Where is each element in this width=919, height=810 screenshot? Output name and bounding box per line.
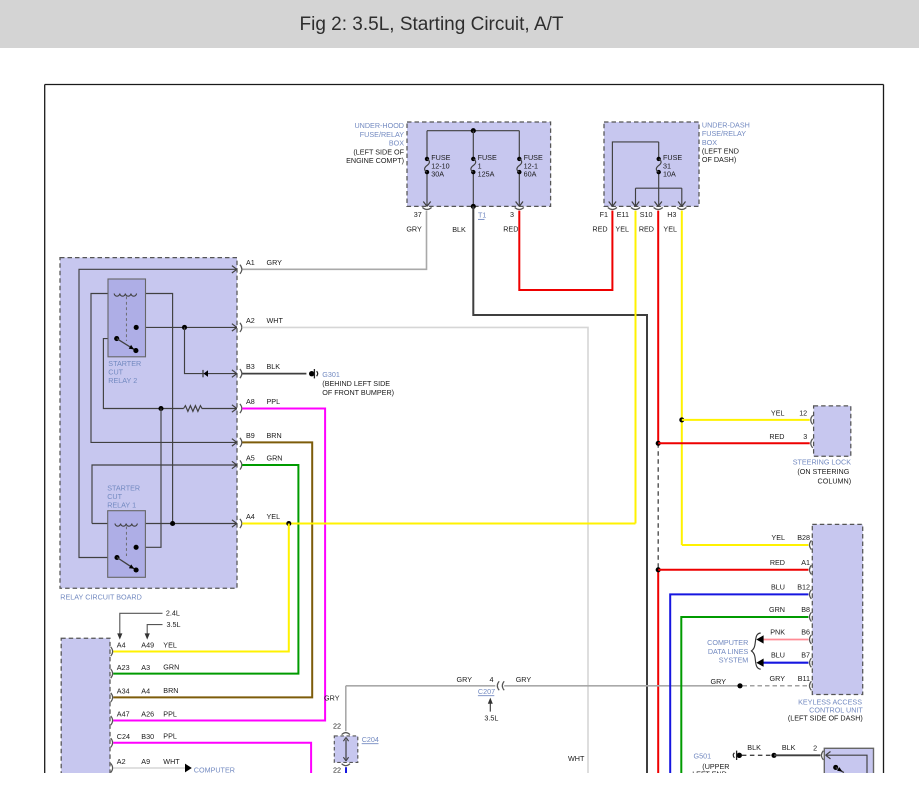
svg-text:B7: B7 (801, 651, 810, 660)
node RED A1 junction (656, 567, 661, 572)
wire GRY 37 to A1 (242, 211, 426, 270)
unit switch (833, 765, 838, 770)
svg-text:GRY: GRY (516, 675, 532, 684)
svg-text:GRY: GRY (457, 675, 473, 684)
variant 3.5L pointer (147, 625, 162, 635)
svg-text:BLK: BLK (267, 362, 281, 371)
svg-text:C204: C204 (362, 735, 379, 744)
arrow PNK B6 (756, 635, 763, 643)
pin B8 socket (809, 612, 811, 621)
svg-text:A2: A2 (117, 757, 126, 766)
svg-text:DATA LINES: DATA LINES (708, 647, 749, 656)
title bar (0, 0, 919, 48)
wire H3 internal (681, 188, 683, 206)
connector C207 break (497, 681, 499, 690)
svg-text:ENGINE COMPT): ENGINE COMPT) (346, 156, 404, 165)
steering lock box (814, 406, 851, 456)
pin 2 arrow inside (826, 752, 831, 756)
svg-text:RED: RED (592, 225, 607, 234)
wire GRY B11 dashed (743, 685, 808, 687)
svg-text:WHT: WHT (568, 754, 585, 763)
node T1 top junction (471, 128, 476, 133)
wire BLK T1 down (473, 206, 647, 773)
svg-text:RED: RED (770, 558, 785, 567)
svg-text:2: 2 (813, 743, 817, 752)
wire BLU B12 (670, 594, 808, 773)
svg-text:OF DASH): OF DASH) (702, 155, 736, 164)
bottom-right control unit box (824, 748, 873, 778)
relay box starter cut relay 1 (108, 511, 146, 578)
svg-text:YEL: YEL (267, 512, 281, 521)
svg-text:G301: G301 (322, 370, 340, 379)
computer off-page arrow (185, 764, 192, 773)
under-dash fuse/relay box (604, 122, 699, 206)
wire relay2 coil left to B9 (91, 294, 237, 443)
svg-text:A26: A26 (141, 710, 154, 719)
computer connector block (61, 638, 110, 778)
pin B9 arrow (232, 439, 237, 443)
svg-text:PPL: PPL (267, 397, 281, 406)
svg-text:RELAY 1: RELAY 1 (107, 501, 136, 510)
wire BRN B9 to A34 (113, 442, 312, 697)
svg-text:WHT: WHT (163, 757, 180, 766)
unit inner wire (826, 755, 867, 773)
svg-text:22: 22 (333, 722, 341, 731)
svg-text:3: 3 (803, 432, 807, 441)
pin C24/B30 socket (111, 738, 113, 747)
relay 2 pivot (114, 336, 119, 341)
wire A2 junction to B3 diode (185, 327, 237, 373)
connector C204 through-pin (345, 740, 347, 760)
svg-text:(ON STEERING: (ON STEERING (797, 467, 849, 476)
relay 2 core dashed link (125, 297, 127, 342)
under-hood fuse/relay box (407, 122, 551, 206)
pin A5 arrow (232, 461, 237, 465)
svg-text:125A: 125A (478, 169, 495, 178)
pin A8 arrow (232, 405, 237, 409)
node GRY B11 junction (737, 683, 742, 688)
wire RED to steering 3 (658, 442, 810, 444)
svg-text:YEL: YEL (163, 640, 177, 649)
relay 1 pivot (114, 555, 119, 560)
wire BLU B7 (763, 662, 808, 664)
under-hood bus wire (427, 130, 519, 132)
fuse 12-1 60A (517, 157, 521, 161)
svg-text:COMPUTER: COMPUTER (707, 638, 748, 647)
wire GRY B11 right segment (504, 685, 740, 687)
pin B12 socket (809, 590, 811, 599)
svg-text:B3: B3 (246, 362, 255, 371)
resistor R1 (184, 406, 204, 412)
svg-text:STEERING LOCK: STEERING LOCK (793, 457, 852, 466)
svg-text:B12: B12 (797, 582, 810, 591)
connector C204 box (334, 736, 358, 763)
svg-text:BLU: BLU (771, 651, 785, 660)
pin F1 arrow (609, 202, 613, 207)
wire GRY B11 left segment (346, 685, 496, 687)
svg-text:RELAY CIRCUIT BOARD: RELAY CIRCUIT BOARD (60, 592, 141, 601)
ground G301 (309, 371, 314, 376)
pin B6 socket (809, 635, 811, 644)
svg-text:T1: T1 (478, 211, 486, 220)
pin S10 arrow (655, 202, 659, 207)
wire E11 internal (635, 188, 637, 206)
wire BLK B3 to ground (242, 373, 306, 375)
pin A4 arrow (232, 520, 237, 524)
svg-text:A1: A1 (801, 558, 810, 567)
wire WHT A2/A9 (113, 767, 185, 769)
svg-text:A3: A3 (141, 663, 150, 672)
svg-text:A9: A9 (141, 757, 150, 766)
svg-text:SYSTEM: SYSTEM (719, 656, 749, 665)
svg-text:BLK: BLK (747, 743, 761, 752)
variant 2.4L pointer (120, 613, 163, 634)
svg-text:10A: 10A (663, 169, 676, 178)
svg-text:COLUMN): COLUMN) (818, 476, 852, 485)
pin 3 arrow (516, 202, 520, 207)
wire YEL H3 to B28 (682, 544, 809, 546)
svg-text:UNDER-HOOD: UNDER-HOOD (354, 121, 404, 130)
relay 1 coil (115, 524, 137, 527)
node T1 bottom junction (471, 204, 476, 209)
svg-text:A4: A4 (246, 512, 255, 521)
pin H3 arrow (678, 202, 682, 207)
wire PNK B6 (763, 639, 808, 641)
node A8 junction (158, 406, 163, 411)
svg-text:A1: A1 (246, 258, 255, 267)
svg-text:B8: B8 (801, 605, 810, 614)
wire relay2 coil right to A4 junction (137, 294, 173, 524)
svg-text:PPL: PPL (163, 709, 177, 718)
svg-text:(BEHIND LEFT SIDE: (BEHIND LEFT SIDE (322, 379, 390, 388)
svg-text:FUSE/RELAY: FUSE/RELAY (360, 130, 404, 139)
pin 37 arrow (423, 202, 427, 207)
svg-text:F1: F1 (600, 210, 608, 219)
svg-text:OF FRONT BUMPER): OF FRONT BUMPER) (322, 388, 394, 397)
pin 12 socket (811, 415, 813, 424)
svg-text:BLK: BLK (452, 225, 466, 234)
wire A5 to relay1 coil (92, 465, 237, 524)
pin A1 arrow (232, 266, 237, 270)
relay 1 fixed contact (134, 545, 139, 550)
pin 2 socket (821, 751, 823, 760)
svg-text:GRY: GRY (770, 674, 786, 683)
svg-text:B30: B30 (141, 732, 154, 741)
keyless access control unit box (812, 524, 862, 694)
fuse 12-10 30A (425, 157, 429, 161)
svg-text:YEL: YEL (771, 408, 785, 417)
svg-text:A4: A4 (141, 687, 150, 696)
pin A2 arrow (232, 324, 237, 328)
svg-text:GRY: GRY (267, 258, 283, 267)
wire GRY down to C204 (345, 686, 347, 731)
pin B3 arrow (232, 370, 237, 374)
fuse 31 10A (657, 157, 661, 161)
connector C204 top socket (342, 733, 350, 735)
svg-text:A34: A34 (117, 687, 130, 696)
svg-text:LEFT END: LEFT END (692, 770, 727, 779)
svg-text:PNK: PNK (770, 628, 785, 637)
svg-text:GRN: GRN (267, 454, 283, 463)
node A4 coil junction (170, 521, 175, 526)
svg-text:RED: RED (639, 225, 654, 234)
svg-text:B6: B6 (801, 628, 810, 637)
pin A2/A9 socket (111, 763, 113, 772)
relay 2 blade (117, 339, 136, 351)
svg-text:BRN: BRN (163, 686, 178, 695)
svg-text:S10: S10 (640, 210, 653, 219)
relay 1 blade (117, 558, 136, 571)
svg-text:RED: RED (769, 432, 784, 441)
wire BLU below C204 (345, 767, 347, 773)
diagram frame (45, 84, 884, 86)
pin A47/A26 socket (111, 716, 113, 725)
wire GRN B8 (681, 617, 808, 773)
wire RED S10 dashed segment (657, 443, 659, 570)
svg-text:BOX: BOX (389, 139, 404, 148)
node RED 3 junction (656, 441, 661, 446)
svg-text:GRN: GRN (163, 662, 179, 671)
pin 3 socket steering (811, 439, 813, 448)
node BLK junction (771, 753, 776, 758)
under-dash output bus (636, 187, 682, 189)
pin A4/A49 socket (111, 647, 113, 656)
wire YEL H3 down (681, 211, 683, 545)
svg-text:3.5L: 3.5L (167, 620, 181, 629)
svg-text:B9: B9 (246, 431, 255, 440)
pin A1 socket (809, 565, 811, 574)
wire relay1 coil to A4 (92, 523, 237, 525)
data lines brace (751, 633, 760, 669)
svg-text:B11: B11 (798, 674, 810, 683)
svg-text:COMPUTER: COMPUTER (194, 766, 235, 775)
variant 3.5L pointer C207 (489, 703, 491, 712)
wire fuse 1 column (472, 131, 474, 159)
node A2 junction (182, 325, 187, 330)
pin E11 arrow (632, 202, 636, 207)
svg-text:RELAY 2: RELAY 2 (108, 376, 137, 385)
svg-text:(LEFT END: (LEFT END (702, 147, 739, 156)
svg-text:BOX: BOX (702, 138, 717, 147)
node YEL A4 junction (286, 521, 291, 526)
svg-text:A8: A8 (246, 397, 255, 406)
node YEL 12 junction (679, 417, 684, 422)
svg-text:YEL: YEL (615, 225, 629, 234)
wire RED to A1 (658, 569, 808, 571)
svg-text:30A: 30A (431, 169, 444, 178)
wire YEL A4 row (242, 523, 635, 525)
svg-text:BLU: BLU (771, 582, 785, 591)
relay box starter cut relay 2 (108, 279, 146, 357)
wire F1 internal (612, 142, 658, 207)
svg-text:YEL: YEL (663, 225, 677, 234)
wire YEL E11 down to A4 (635, 211, 637, 524)
pin A23/A3 socket (111, 669, 113, 678)
svg-text:WHT: WHT (267, 316, 284, 325)
arrow BLU B7 (756, 659, 763, 667)
wire WHT A2 (242, 327, 588, 773)
wire PPL C24 (113, 743, 311, 773)
svg-text:12: 12 (799, 408, 807, 417)
svg-text:GRY: GRY (406, 225, 422, 234)
pin B28 socket (809, 540, 811, 549)
svg-text:A5: A5 (246, 454, 255, 463)
fuse 1 125A (471, 157, 475, 161)
svg-text:2.4L: 2.4L (166, 609, 180, 618)
svg-text:PPL: PPL (163, 732, 177, 741)
pin A34/A4 socket (111, 693, 113, 702)
svg-text:3.5L: 3.5L (484, 714, 498, 723)
relay 2 fixed contact (134, 325, 139, 330)
svg-text:BRN: BRN (267, 431, 282, 440)
svg-text:YEL: YEL (771, 533, 785, 542)
svg-text:BLK: BLK (782, 743, 796, 752)
wire relay2 contact to A2 (136, 326, 237, 328)
wire BLK G501 dashed (742, 754, 774, 756)
svg-text:3: 3 (510, 210, 514, 219)
svg-text:GRY: GRY (711, 677, 727, 686)
svg-text:60A: 60A (524, 169, 537, 178)
wire resistor to A8 pin (204, 408, 237, 410)
ground G501 (737, 753, 742, 758)
wire YEL to steering 12 (682, 419, 810, 421)
svg-text:RED: RED (503, 225, 518, 234)
svg-text:G501: G501 (694, 752, 712, 761)
wire fuse 12-1 column (518, 131, 520, 159)
svg-text:A47: A47 (117, 710, 130, 719)
svg-text:A2: A2 (246, 316, 255, 325)
svg-text:4: 4 (490, 675, 494, 684)
svg-text:37: 37 (414, 210, 422, 219)
wire relay2 pivot to A8 (103, 339, 183, 409)
wire A8 junction to relay1 contact (136, 409, 161, 548)
svg-text:C207: C207 (478, 687, 495, 696)
svg-text:Fig 2: 3.5L, Starting Circuit,: Fig 2: 3.5L, Starting Circuit, A/T (300, 14, 564, 35)
svg-text:A23: A23 (117, 663, 130, 672)
connector C204 bottom socket (342, 764, 350, 766)
wire fuse 31 column (658, 142, 660, 159)
svg-text:H3: H3 (667, 210, 676, 219)
relay circuit board box (60, 258, 237, 589)
wire A1 to relay1 pivot (79, 269, 237, 557)
svg-text:FUSE/RELAY: FUSE/RELAY (702, 129, 746, 138)
svg-text:A4: A4 (117, 641, 126, 650)
wire RED down to bottom (657, 570, 659, 773)
wire RED S10 down (657, 211, 659, 444)
svg-text:E11: E11 (617, 210, 629, 219)
svg-text:B28: B28 (797, 533, 810, 542)
svg-text:(LEFT SIDE OF DASH): (LEFT SIDE OF DASH) (788, 714, 863, 723)
svg-text:A49: A49 (141, 641, 154, 650)
diode D1 (202, 370, 204, 377)
wire GRN A5 to A23 (113, 465, 298, 674)
pin B7 socket (809, 658, 811, 667)
svg-text:(LEFT SIDE OF: (LEFT SIDE OF (353, 147, 404, 156)
wire RED 3 to F1 (519, 211, 612, 290)
svg-text:GRY: GRY (324, 694, 340, 703)
wire YEL down to A4 pin (113, 524, 289, 652)
pin B11 socket (809, 681, 811, 690)
wire fuse 12-10 column (426, 131, 428, 159)
svg-text:C24: C24 (117, 732, 130, 741)
relay 2 coil (114, 294, 136, 297)
relay 1 core dashed link (125, 527, 127, 557)
wire BLK solid to unit (774, 754, 821, 756)
svg-text:22: 22 (333, 765, 341, 774)
wire PPL A8 to A47 (113, 409, 325, 721)
svg-text:GRN: GRN (769, 605, 785, 614)
